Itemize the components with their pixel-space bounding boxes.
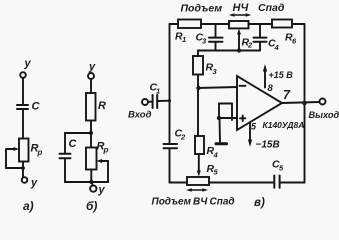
svg-text:C: C bbox=[69, 138, 78, 150]
svg-text:1: 1 bbox=[156, 87, 160, 96]
svg-text:p: p bbox=[103, 146, 109, 155]
svg-text:6: 6 bbox=[292, 37, 297, 46]
svg-text:4: 4 bbox=[213, 151, 219, 160]
svg-text:+15 В: +15 В bbox=[269, 70, 294, 80]
svg-text:у: у bbox=[88, 61, 96, 73]
svg-text:Вход: Вход bbox=[128, 110, 152, 121]
svg-text:2: 2 bbox=[180, 133, 186, 142]
svg-text:1: 1 bbox=[182, 35, 186, 44]
svg-text:Подъем: Подъем bbox=[181, 3, 223, 15]
svg-text:ВЧ: ВЧ bbox=[193, 197, 208, 208]
svg-text:5: 5 bbox=[279, 164, 284, 173]
svg-text:8: 8 bbox=[268, 83, 274, 94]
svg-text:7: 7 bbox=[283, 88, 291, 102]
svg-text:Спад: Спад bbox=[210, 197, 235, 208]
svg-text:C: C bbox=[32, 101, 41, 113]
svg-text:R: R bbox=[98, 100, 106, 112]
svg-text:2: 2 bbox=[247, 41, 253, 50]
svg-text:в): в) bbox=[254, 197, 265, 209]
svg-text:4: 4 bbox=[274, 43, 280, 52]
svg-text:Подъем: Подъем bbox=[152, 197, 192, 208]
svg-text:Выход: Выход bbox=[309, 110, 339, 120]
svg-text:Спад: Спад bbox=[258, 2, 285, 14]
svg-text:3: 3 bbox=[213, 67, 218, 76]
svg-text:−15В: −15В bbox=[256, 140, 280, 151]
svg-text:5: 5 bbox=[251, 122, 257, 132]
svg-text:у: у bbox=[30, 177, 38, 189]
svg-text:а): а) bbox=[23, 199, 34, 213]
svg-text:б): б) bbox=[86, 199, 97, 213]
svg-text:у: у bbox=[24, 58, 32, 70]
svg-text:5: 5 bbox=[214, 168, 219, 177]
svg-text:p: p bbox=[37, 148, 43, 157]
svg-text:К140УД8А: К140УД8А bbox=[263, 120, 305, 130]
svg-text:у: у bbox=[98, 184, 106, 196]
svg-text:НЧ: НЧ bbox=[233, 2, 249, 14]
svg-text:3: 3 bbox=[202, 37, 207, 46]
